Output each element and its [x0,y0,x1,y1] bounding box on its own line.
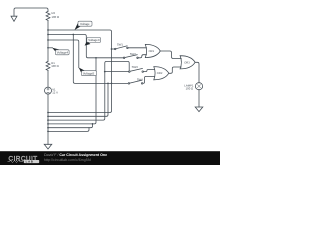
svg-text:SW3: SW3 [132,65,139,69]
svg-text:100 Ω: 100 Ω [186,86,194,90]
svg-text:Voltage: Voltage [80,22,90,26]
svg-text:100 Ω: 100 Ω [52,15,60,19]
svg-text:Voltage4: Voltage4 [57,51,69,55]
svg-text:Voltage3: Voltage3 [88,38,100,42]
svg-text:Voltage5: Voltage5 [83,72,95,76]
svg-text:OR3: OR3 [184,62,190,65]
svg-text:OR2: OR2 [157,72,163,75]
svg-text:SW1: SW1 [117,42,124,46]
svg-text:SW2: SW2 [130,52,137,56]
svg-text:http://circuitlab.com/c/6mg5fd: http://circuitlab.com/c/6mg5fd [44,158,91,162]
svg-text:OR1: OR1 [149,50,155,53]
svg-text:12 V: 12 V [52,91,58,95]
svg-text:100 Ω: 100 Ω [51,64,59,68]
svg-text:David F / Car Circuit Assignme: David F / Car Circuit Assignment One [44,153,107,157]
svg-text:SW4: SW4 [137,77,144,81]
svg-text:LAB: LAB [26,161,34,164]
